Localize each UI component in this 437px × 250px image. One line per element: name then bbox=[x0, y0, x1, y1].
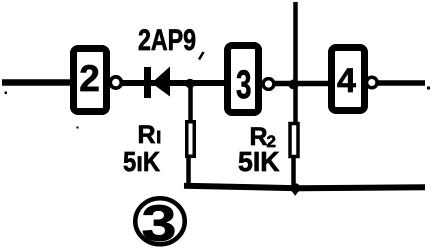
wire left input bbox=[2, 79, 70, 86]
speck below box 2 bbox=[77, 127, 79, 129]
wire output right bbox=[378, 80, 425, 86]
gate 3 box bbox=[228, 46, 259, 113]
junction node B bbox=[289, 80, 299, 90]
speck right bbox=[427, 87, 430, 90]
speck bbox=[5, 92, 8, 95]
wire node A down to R1 bbox=[188, 83, 193, 123]
wire R1 bottom lead bbox=[186, 156, 191, 187]
wire bubble2 to diode bbox=[122, 80, 172, 86]
figure number circle bbox=[135, 198, 185, 244]
tick mark after 2AP9 bbox=[199, 52, 204, 60]
svg-text:2AP9: 2AP9 bbox=[138, 24, 196, 57]
wire diode to gate 3 bbox=[168, 80, 228, 86]
wire bubble3 to gate 4 bbox=[274, 81, 330, 87]
svg-text:5ıK: 5ıK bbox=[123, 146, 160, 177]
diode VD 2AP9 cathode bar bbox=[144, 67, 151, 98]
wire R2 bottom lead bbox=[291, 157, 296, 190]
wire vertical top line through node B to R2 bbox=[293, 2, 298, 123]
inversion bubble gate 4 bbox=[367, 77, 378, 88]
svg-text:3: 3 bbox=[236, 63, 252, 107]
svg-text:3: 3 bbox=[142, 195, 177, 250]
gate 2 box bbox=[74, 49, 107, 112]
svg-text:R: R bbox=[138, 121, 156, 149]
inversion bubble gate 3 bbox=[263, 79, 274, 90]
inversion bubble gate 2 bbox=[110, 77, 121, 88]
gate 4 box bbox=[332, 48, 365, 111]
resistor R1 body bbox=[187, 122, 195, 157]
svg-text:4: 4 bbox=[337, 62, 356, 100]
wire bottom rail bbox=[184, 186, 425, 188]
junction node C on bottom rail bbox=[290, 183, 300, 193]
svg-text:5IK: 5IK bbox=[238, 146, 280, 177]
diode VD 2AP9 triangle bbox=[152, 67, 171, 97]
resistor R2 body bbox=[290, 124, 298, 157]
svg-text:2: 2 bbox=[79, 58, 100, 99]
junction node A bbox=[185, 79, 195, 89]
